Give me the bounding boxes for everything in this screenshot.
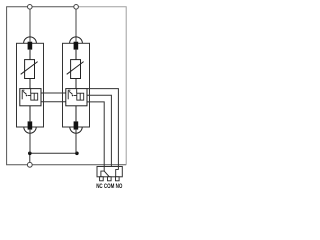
svg-text:NC COM NO: NC COM NO: [96, 183, 122, 190]
